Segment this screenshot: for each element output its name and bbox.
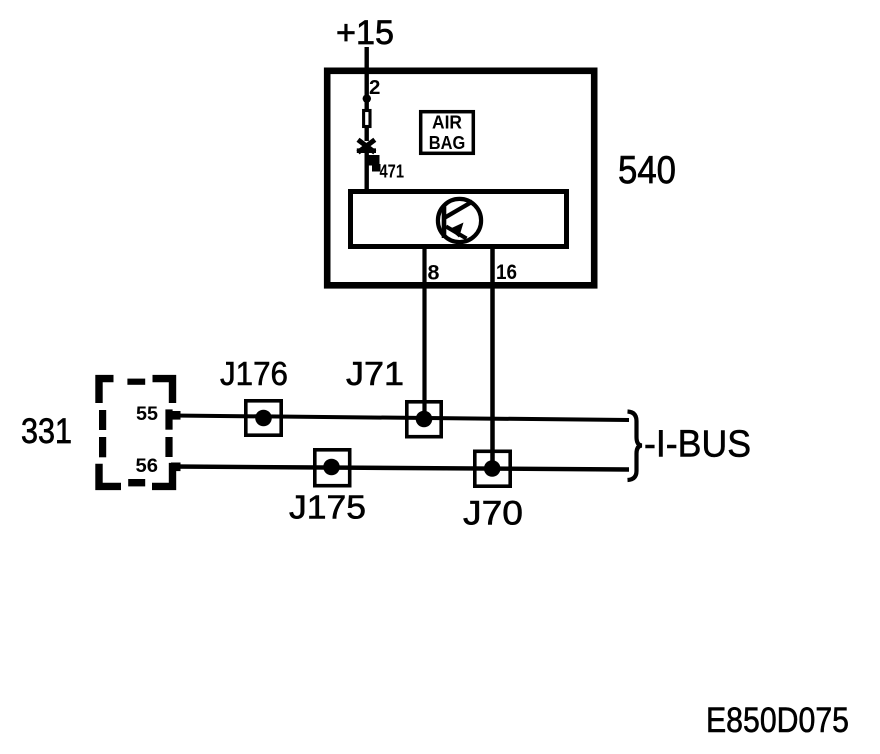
svg-text:2: 2: [369, 76, 380, 99]
svg-text:16: 16: [496, 260, 517, 284]
pin 55 stub: [171, 411, 181, 420]
I-BUS brace: [628, 412, 643, 481]
splice J70: [475, 451, 510, 486]
wire 56 I-bus: [172, 467, 629, 470]
transistor U1 in circle: [438, 199, 481, 242]
pin 16 label: [496, 260, 517, 284]
label 540: [618, 149, 676, 192]
svg-text:J70: J70: [463, 495, 523, 533]
AIR BAG box: [421, 112, 474, 154]
svg-text:331: 331: [21, 412, 72, 451]
svg-text:BAG: BAG: [429, 132, 466, 153]
svg-text:56: 56: [136, 455, 159, 477]
node marker squares at 471: [369, 155, 381, 172]
svg-text:-I-BUS: -I-BUS: [644, 424, 751, 466]
splice J176: [246, 401, 281, 435]
label J70: [463, 495, 523, 533]
svg-text:AIR: AIR: [432, 112, 462, 133]
connector 331 dashed box: [99, 379, 173, 487]
junction node dot: [363, 94, 371, 102]
pin 56 label: [136, 455, 159, 477]
spark-gap / arrestor symbol: [357, 140, 376, 153]
label -I-BUS: [644, 424, 751, 466]
wire 55 I-bus: [172, 416, 629, 421]
svg-text:J175: J175: [289, 490, 366, 527]
pin 16 wire: [490, 249, 495, 464]
fuse element (rectangle): [364, 111, 370, 127]
AIR BAG text: [429, 112, 466, 154]
splice J175: [315, 450, 350, 486]
wire +15 supply into box: [365, 47, 369, 111]
label J176: [220, 356, 288, 393]
svg-text:+15: +15: [336, 14, 394, 52]
label 471: [380, 162, 405, 182]
pin 2 label: [369, 76, 380, 99]
pin 8 wire: [422, 249, 426, 414]
svg-text:8: 8: [428, 261, 440, 285]
ECU box 540: [327, 71, 594, 285]
net +15 label: [336, 14, 394, 52]
label J71: [346, 356, 404, 393]
splice J71: [407, 402, 441, 437]
svg-text:E850D075: E850D075: [706, 701, 849, 740]
label 331: [21, 412, 72, 451]
svg-text:540: 540: [618, 149, 676, 192]
label J175: [289, 490, 366, 527]
svg-text:55: 55: [136, 403, 158, 425]
drawing number E850D075: [706, 701, 849, 740]
wire arrestor to driver block: [365, 152, 369, 191]
svg-text:J176: J176: [220, 356, 288, 393]
pin 55 label: [136, 403, 158, 425]
pin 8 label: [428, 261, 440, 285]
svg-text:471: 471: [380, 162, 405, 182]
output driver block: [351, 192, 567, 247]
pin 56 stub: [171, 463, 181, 472]
svg-text:J71: J71: [346, 356, 404, 393]
wire fuse to arrestor: [365, 128, 369, 141]
